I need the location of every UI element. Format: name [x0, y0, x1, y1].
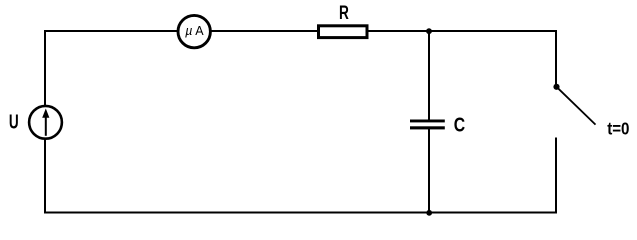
- wire right lower (below switch to bottom-right corner): [555, 138, 557, 214]
- node junction top: [426, 28, 432, 34]
- svg-text:R: R: [339, 2, 349, 24]
- capacitor C1 plates: [410, 120, 445, 130]
- svg-text:µ A: µ A: [185, 24, 204, 38]
- resistor R1: [319, 26, 368, 38]
- wire left (top-left corner down to bottom-left corner): [44, 30, 46, 213]
- wire capacitor branch lower: [428, 129, 430, 212]
- wire capacitor branch upper: [428, 31, 430, 120]
- node junction bottom: [426, 210, 432, 216]
- wire bottom: [44, 212, 557, 214]
- svg-text:t=0: t=0: [607, 118, 629, 139]
- wire top (left corner to right corner): [45, 30, 556, 32]
- switch S1 contact dot: [553, 84, 559, 90]
- svg-text:U: U: [9, 111, 19, 133]
- svg-text:C: C: [454, 114, 465, 136]
- voltage source U1 (circle with up arrow): [29, 106, 62, 139]
- ammeter M1 (microammeter): [178, 15, 210, 47]
- wire right upper (top-right corner to switch contact): [555, 30, 557, 87]
- switch S1 blade: [557, 87, 596, 124]
